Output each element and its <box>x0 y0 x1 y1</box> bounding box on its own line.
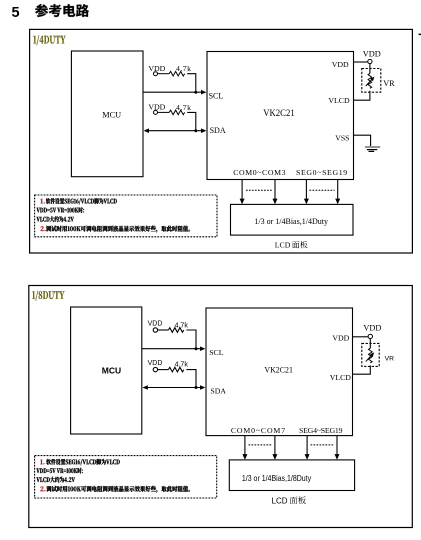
COM/SEG connector wire 4 (sec2) <box>336 436 338 455</box>
COM/SEG connector wire 2 (sec2) <box>274 436 276 455</box>
note line 4 number (sec2) <box>40 487 45 492</box>
svg-text:VDD: VDD <box>332 60 349 69</box>
arrow into SDA pin (sec2) <box>200 385 205 390</box>
resistor 4.7k (SDA pull-up, sec2) <box>158 369 169 371</box>
wire SDA (sec2, bidirectional) <box>146 387 200 389</box>
COM/SEG connector wire 4 (sec1) <box>337 180 339 200</box>
wire VR to VLCD pin <box>354 91 370 100</box>
svg-text:SDA: SDA <box>210 387 226 396</box>
svg-text:VLCD: VLCD <box>330 373 352 382</box>
svg-text:COM0~COM3: COM0~COM3 <box>233 168 285 177</box>
dashed bus continuation (SEG, sec1) <box>310 189 335 191</box>
svg-text:LCD: LCD <box>272 496 288 505</box>
dashed bus continuation (SEG, sec2) <box>311 444 335 446</box>
arrow into SDA pin <box>201 128 206 133</box>
heading title 参考电路 <box>35 4 89 17</box>
ground symbol <box>365 147 380 151</box>
svg-text:LCD: LCD <box>275 241 291 250</box>
arrow into SCL pin (sec2) <box>200 346 205 351</box>
svg-text:VR: VR <box>385 356 395 363</box>
note line 3 (sec1) <box>37 216 74 222</box>
LCD panel caption LCD面板 (sec2) <box>272 496 306 505</box>
resistor 4.7k (SDA pull-up) <box>158 111 170 113</box>
dashed bus continuation (COM, sec1) <box>246 189 272 191</box>
note line 4 (sec1) <box>46 226 190 233</box>
svg-text:SCL: SCL <box>209 92 224 101</box>
COM/SEG connector wire 3 (sec2) <box>306 436 308 455</box>
svg-text:VDD: VDD <box>332 333 349 342</box>
note line 2 (sec2) <box>36 468 82 474</box>
potentiometer VR (dashed enclosure, sec2) <box>362 343 379 366</box>
arrow into MCU (SDA) <box>144 128 149 133</box>
label 1/8DUTY <box>32 291 64 301</box>
wire SCL (sec2) <box>142 348 201 350</box>
svg-text:4.7k: 4.7k <box>176 103 191 112</box>
COM/SEG connector wire 2 (sec1) <box>274 180 276 200</box>
COM/SEG connector wire 1 (sec1) <box>241 180 243 200</box>
svg-text:VDD: VDD <box>148 64 165 73</box>
resistor 4.7k (SCL pull-up) <box>158 73 170 75</box>
notes box (sec2) <box>35 456 217 498</box>
wire VDD terminal down to VR <box>369 64 371 74</box>
note line 1 (sec2) <box>46 459 119 465</box>
VK2C21 block U1 <box>207 52 354 180</box>
LCD panel caption LCD面板 (sec1) <box>275 241 308 250</box>
svg-text:SCL: SCL <box>209 348 224 357</box>
section frame 1 (1/4 duty circuit) <box>30 29 413 253</box>
page edge mark top right <box>419 34 421 36</box>
section frame 2 (1/8 duty circuit) <box>29 286 413 528</box>
svg-text:VDD: VDD <box>148 321 163 328</box>
notes box (sec1) <box>35 195 217 237</box>
svg-text:MCU: MCU <box>102 110 121 119</box>
svg-text:VDD: VDD <box>363 49 381 58</box>
svg-text:VK2C21: VK2C21 <box>264 365 293 375</box>
wire VR to VLCD pin (sec2) <box>353 365 371 374</box>
wire SDA (MCU to U1, bidirectional) <box>148 130 202 132</box>
svg-text:MCU: MCU <box>102 366 121 376</box>
wire VDD terminal down to VR (sec2) <box>369 339 371 349</box>
MCU block (sec2) <box>71 307 142 434</box>
svg-text:VDD: VDD <box>148 103 165 112</box>
svg-text:1/3 or 1/4Bias,1/4Duty: 1/3 or 1/4Bias,1/4Duty <box>254 217 328 226</box>
wire VSS pin <box>354 135 371 146</box>
wire U1 VDD pin to terminal <box>354 61 368 63</box>
junction dot SCL/pullup (sec2) <box>195 347 198 350</box>
LCD panel block (sec1) <box>231 204 354 235</box>
resistor 4.7k (SCL pull-up, sec2) <box>158 329 169 331</box>
potentiometer VR (dashed enclosure) <box>362 69 381 93</box>
note line 1 number (sec1) <box>41 199 45 204</box>
svg-text:4.7k: 4.7k <box>176 64 191 73</box>
junction dot SDA/pullup (sec2) <box>195 386 198 389</box>
label 1/4DUTY <box>33 35 65 45</box>
COM/SEG connector wire 3 (sec1) <box>305 180 307 200</box>
svg-text:4.7k: 4.7k <box>175 362 189 369</box>
note line 1 (sec1) <box>46 198 117 204</box>
svg-text:COM0~COM7: COM0~COM7 <box>231 426 285 435</box>
svg-text:VLCD: VLCD <box>328 96 350 105</box>
note line 4 number (sec1) <box>41 226 46 231</box>
svg-text:VDD: VDD <box>148 360 163 367</box>
dashed bus continuation (COM, sec2) <box>249 444 273 446</box>
arrow into SCL pin <box>201 90 206 95</box>
svg-text:SEG0~SEG19: SEG0~SEG19 <box>296 168 347 177</box>
arrow into MCU (SDA, sec2) <box>142 385 147 390</box>
wire U2 VDD pin to terminal <box>353 336 369 338</box>
svg-text:SEG4~SEG19: SEG4~SEG19 <box>299 426 343 435</box>
note line 2 (sec1) <box>37 207 85 213</box>
svg-text:1/3 or 1/4Bias,1/8Duty: 1/3 or 1/4Bias,1/8Duty <box>242 473 312 483</box>
wire SCL (MCU to U1) <box>143 91 202 93</box>
COM/SEG connector wire 1 (sec2) <box>244 436 246 455</box>
svg-text:VR: VR <box>383 79 395 88</box>
junction dot SCL/pullup <box>194 91 197 94</box>
VK2C21 block U2 <box>206 308 353 436</box>
svg-text:VDD: VDD <box>363 323 381 332</box>
MCU block <box>71 51 143 177</box>
note line 4 (sec2) <box>46 486 190 493</box>
svg-text:5: 5 <box>12 5 20 21</box>
svg-text:VSS: VSS <box>335 133 349 142</box>
svg-text:4.7k: 4.7k <box>175 323 189 330</box>
svg-text:SDA: SDA <box>210 126 226 135</box>
note line 1 number (sec2) <box>40 460 44 465</box>
svg-text:VK2C21: VK2C21 <box>263 108 295 118</box>
junction dot SDA/pullup <box>194 129 197 132</box>
LCD panel block (sec2) <box>229 460 354 491</box>
note line 3 (sec2) <box>36 477 75 483</box>
